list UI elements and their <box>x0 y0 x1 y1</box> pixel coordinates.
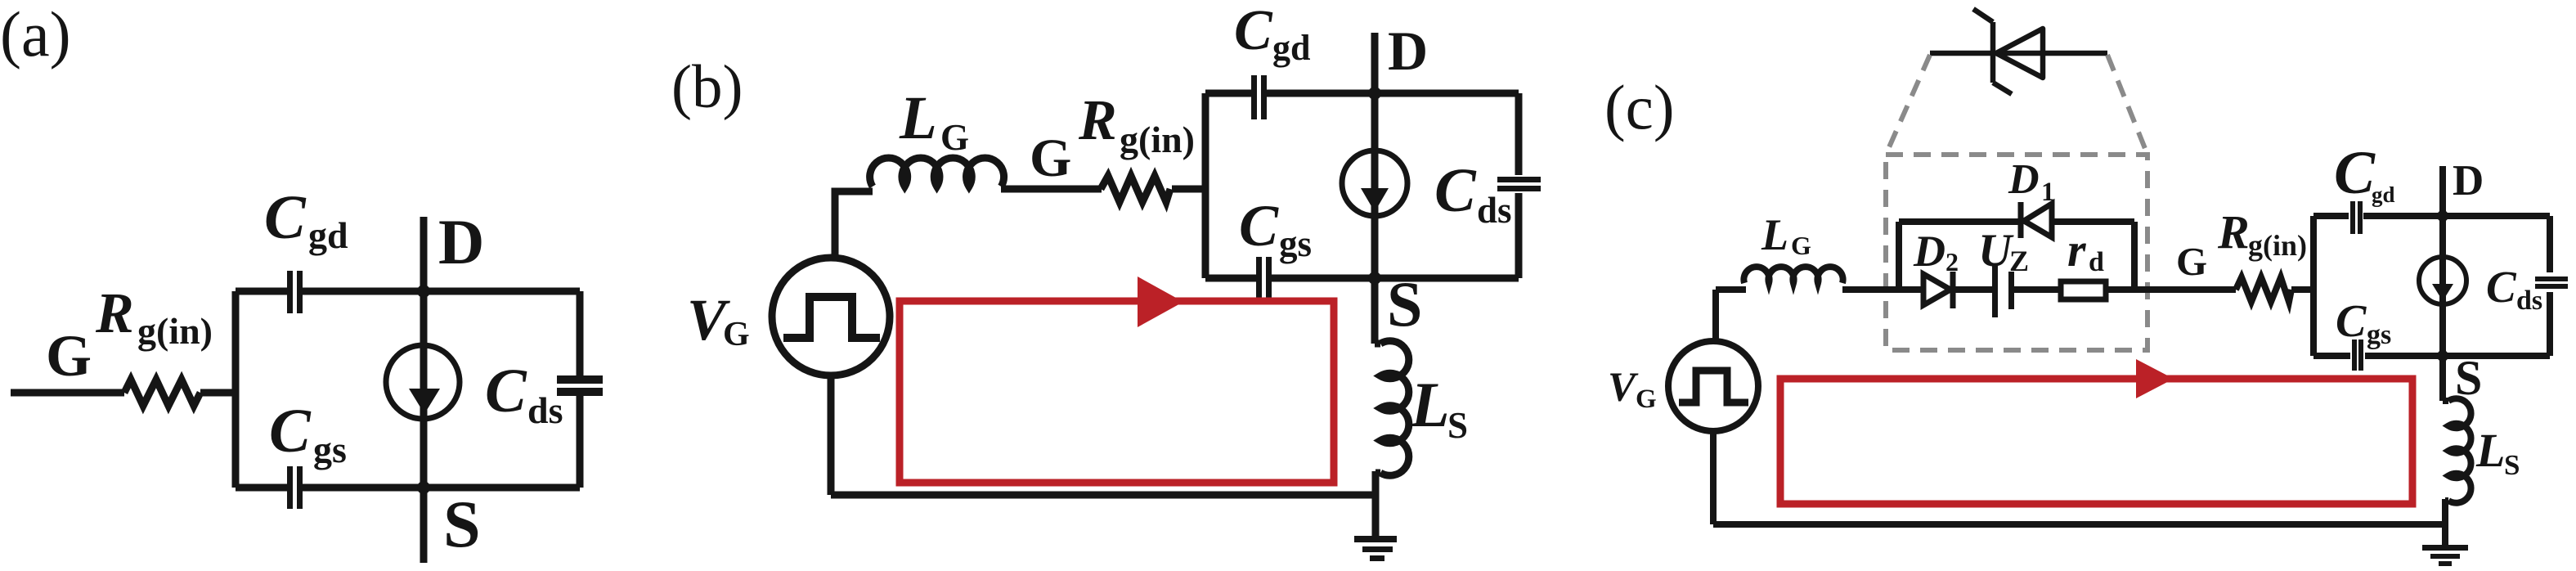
svg-text:S: S <box>2455 351 2482 405</box>
svg-text:L: L <box>899 84 937 152</box>
svg-text:gd: gd <box>1272 28 1310 68</box>
svg-text:D: D <box>1913 227 1945 276</box>
svg-text:ds: ds <box>527 389 563 431</box>
svg-text:ds: ds <box>1477 190 1512 231</box>
svg-text:(b): (b) <box>671 53 743 121</box>
svg-text:gs: gs <box>313 429 347 470</box>
svg-text:(c): (c) <box>1604 72 1674 142</box>
svg-text:R: R <box>95 282 134 345</box>
svg-text:C: C <box>1234 0 1273 62</box>
svg-text:C: C <box>2334 139 2376 207</box>
svg-text:L: L <box>2475 424 2505 477</box>
svg-text:D: D <box>2453 157 2484 205</box>
svg-text:g(in): g(in) <box>2248 229 2307 262</box>
svg-text:S: S <box>1387 268 1422 339</box>
svg-text:V: V <box>1608 365 1639 411</box>
svg-text:R: R <box>2217 205 2250 259</box>
svg-text:C: C <box>269 397 312 465</box>
svg-text:C: C <box>485 357 527 425</box>
svg-text:D: D <box>438 206 484 277</box>
svg-text:C: C <box>2336 296 2367 347</box>
svg-text:L: L <box>1761 210 1788 259</box>
svg-text:gd: gd <box>308 214 348 256</box>
svg-text:G: G <box>1636 384 1657 414</box>
svg-text:R: R <box>1078 89 1117 152</box>
svg-text:(a): (a) <box>0 0 71 70</box>
svg-text:gd: gd <box>2372 182 2395 207</box>
svg-text:C: C <box>1239 193 1279 259</box>
svg-text:r: r <box>2067 223 2086 277</box>
svg-text:Z: Z <box>2009 245 2029 277</box>
svg-text:G: G <box>46 323 92 389</box>
svg-text:g(in): g(in) <box>1120 119 1195 160</box>
svg-text:S: S <box>1447 405 1468 446</box>
svg-text:G: G <box>723 316 750 353</box>
svg-text:D: D <box>2008 156 2040 203</box>
svg-text:G: G <box>1791 231 1811 260</box>
svg-text:gs: gs <box>2367 320 2391 350</box>
svg-text:D: D <box>1388 20 1428 82</box>
svg-text:G: G <box>1030 128 1071 188</box>
svg-text:S: S <box>2504 449 2520 481</box>
svg-text:gs: gs <box>1279 223 1312 264</box>
svg-text:S: S <box>443 487 481 561</box>
svg-text:C: C <box>264 183 307 252</box>
svg-text:C: C <box>2486 262 2517 312</box>
svg-text:ds: ds <box>2516 285 2542 316</box>
svg-text:1: 1 <box>2041 178 2055 207</box>
svg-text:2: 2 <box>1945 247 1959 277</box>
svg-text:G: G <box>2176 239 2207 284</box>
svg-text:G: G <box>940 117 969 158</box>
svg-text:d: d <box>2089 247 2104 277</box>
svg-text:C: C <box>1434 156 1477 225</box>
svg-text:L: L <box>1410 369 1450 440</box>
svg-text:g(in): g(in) <box>137 310 213 352</box>
